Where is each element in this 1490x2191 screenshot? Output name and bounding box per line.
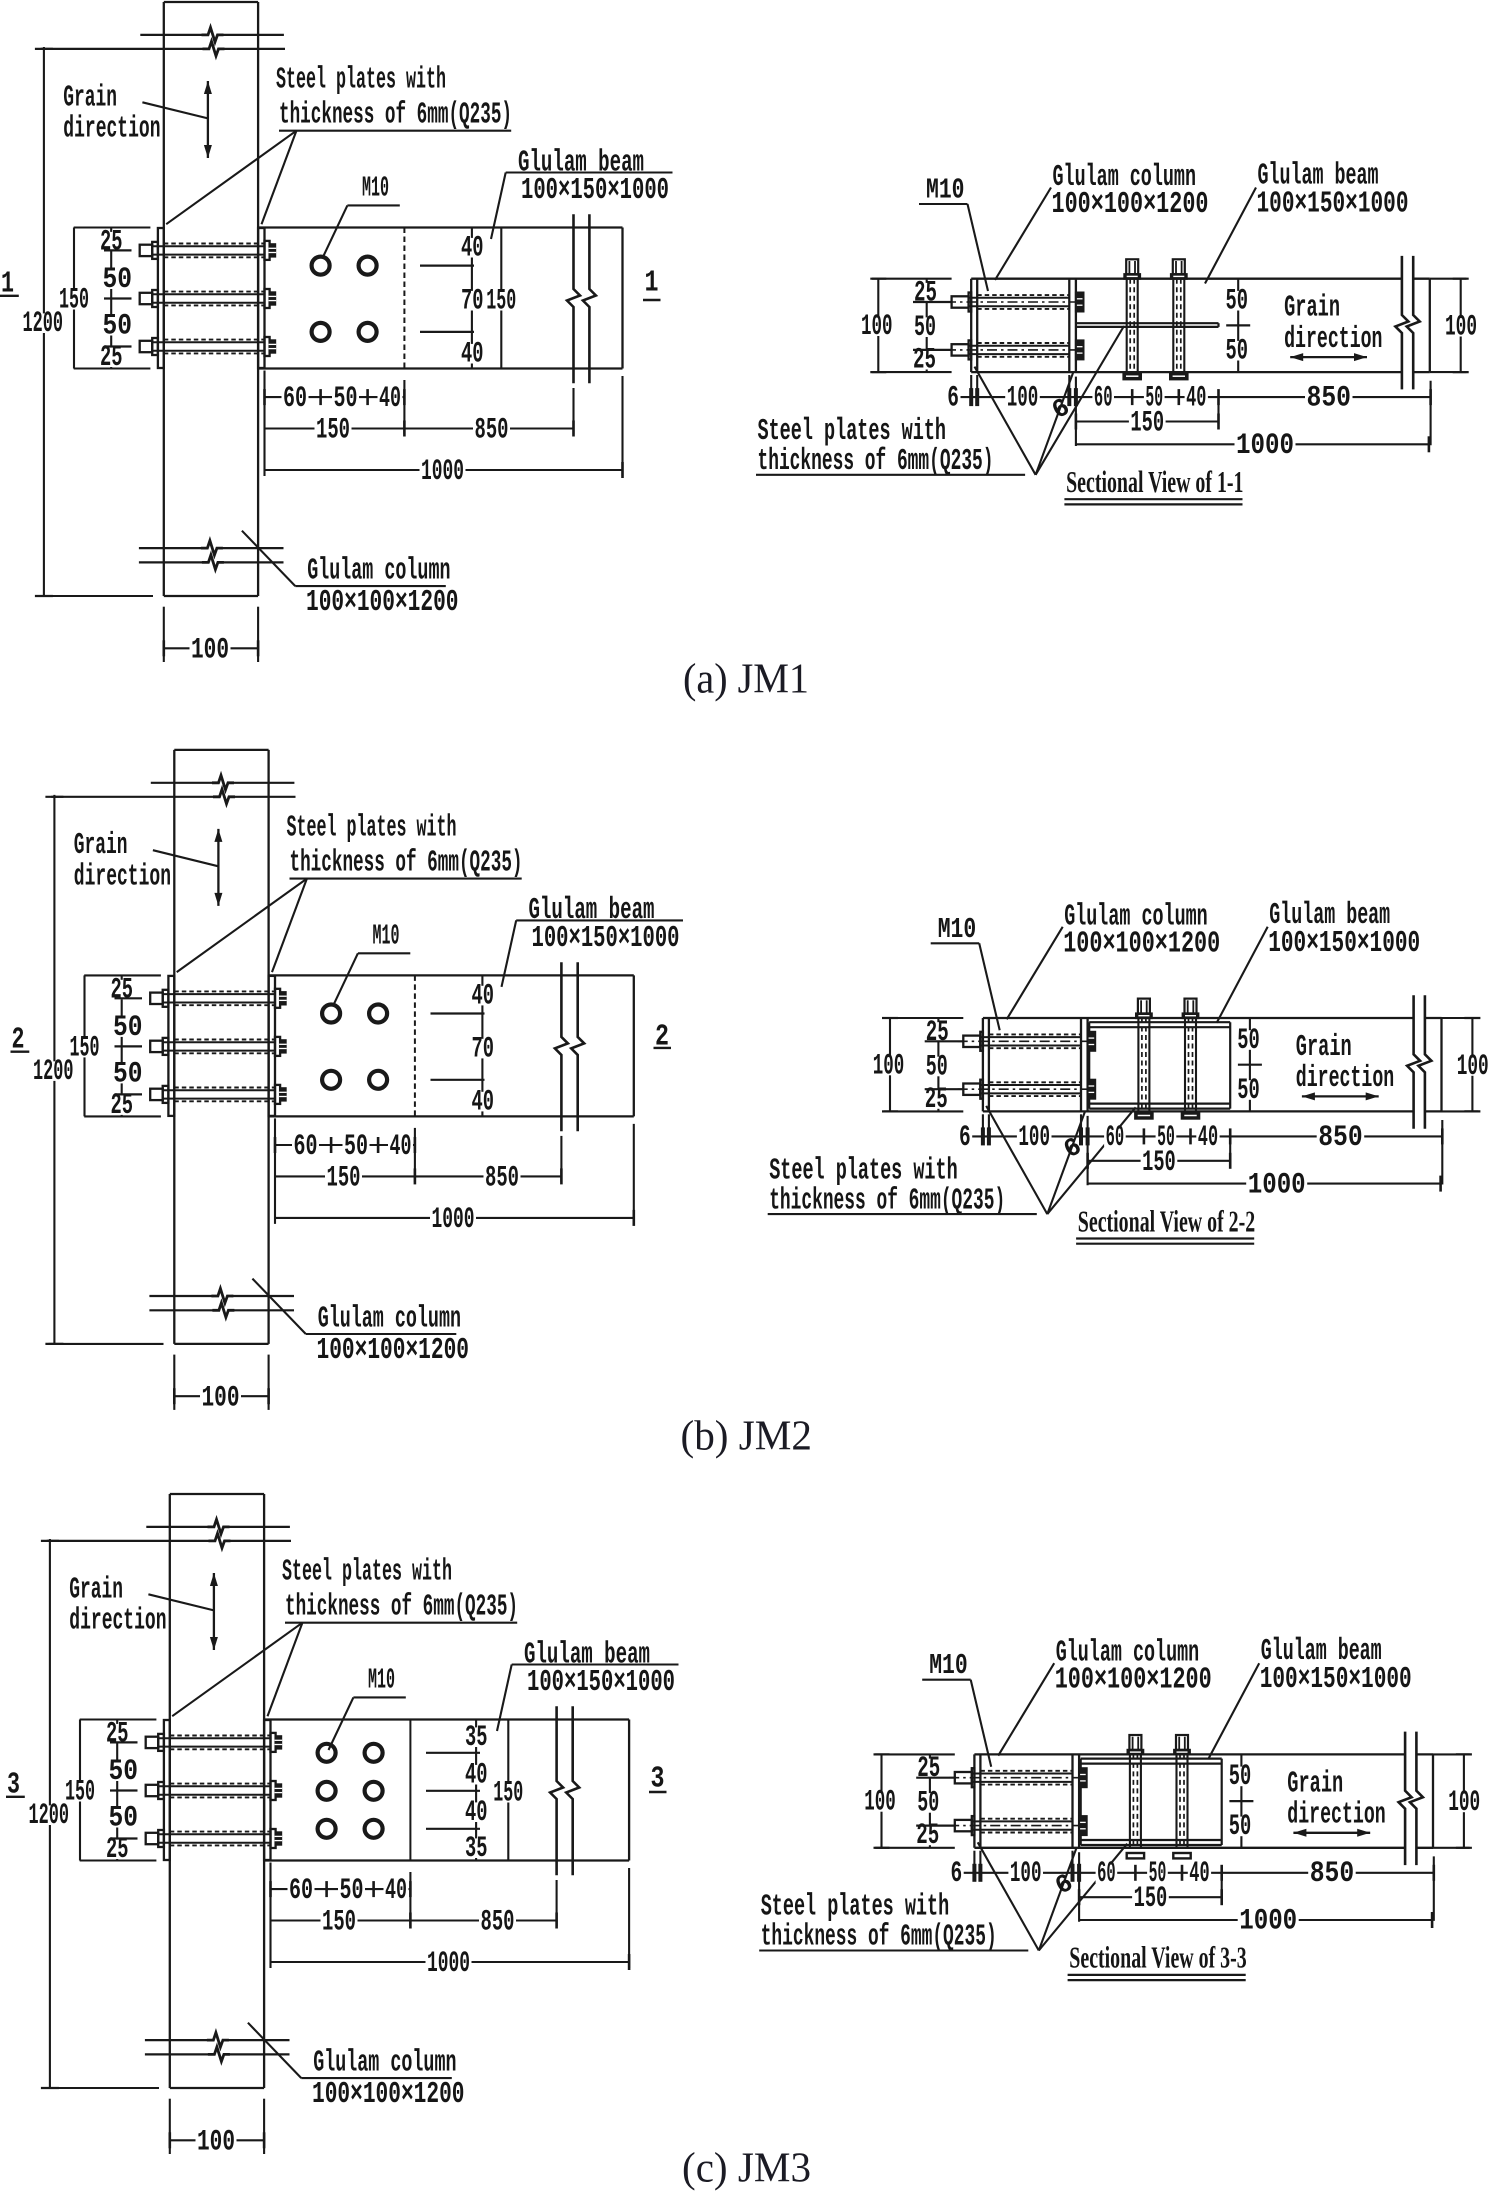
svg-text:100×100×1200: 100×100×1200	[312, 2078, 465, 2112]
svg-text:100: 100	[197, 2126, 235, 2159]
dimension 50/50 JM1	[1237, 279, 1239, 372]
dimension 1000 JM3	[271, 1961, 630, 1963]
dimension 1000 JM1 section	[1076, 443, 1429, 445]
svg-text:150: 150	[65, 1776, 95, 1809]
svg-text:70: 70	[472, 1032, 495, 1065]
svg-text:150: 150	[493, 1777, 523, 1810]
section break symbol JM2	[1407, 995, 1420, 1128]
svg-text:25: 25	[926, 1016, 949, 1049]
bolt M10 row2 JM2 elevation	[150, 1041, 163, 1052]
dimension 100 left JM3	[880, 1754, 882, 1847]
bolt hole circles JM2	[322, 1005, 340, 1023]
svg-text:150: 150	[316, 414, 350, 447]
svg-text:100×100×1200: 100×100×1200	[1052, 188, 1209, 222]
svg-text:850: 850	[1318, 1121, 1363, 1154]
dimension 100 column width JM1	[163, 607, 165, 662]
svg-text:150: 150	[1134, 1882, 1168, 1915]
dimension 150/850 JM2	[275, 1175, 561, 1177]
svg-text:1000: 1000	[1248, 1168, 1306, 1201]
column bottom break symbol JM3	[145, 2039, 209, 2041]
svg-text:25: 25	[913, 344, 936, 377]
svg-text:M10: M10	[368, 1665, 395, 1697]
dimension 150 plate height JM2	[83, 975, 85, 1116]
steel plate end line in beam JM1	[403, 228, 405, 369]
dimension 1000 JM2 section	[1088, 1183, 1441, 1185]
svg-text:50: 50	[109, 1755, 139, 1788]
grain direction arrow JM3	[213, 1573, 215, 1650]
beam break symbol JM2	[555, 962, 568, 1131]
svg-text:direction: direction	[1287, 1799, 1385, 1833]
bolt M10 row1 JM2 elevation	[150, 993, 163, 1004]
extension lines JM3 section	[1078, 1852, 1080, 1921]
bolt M10 row3 JM2 elevation	[150, 1089, 163, 1100]
svg-text:25: 25	[925, 1083, 948, 1116]
svg-text:6: 6	[951, 1857, 963, 1890]
svg-text:40: 40	[472, 1085, 495, 1118]
beam break symbol JM1	[567, 214, 580, 383]
svg-text:100: 100	[191, 634, 229, 667]
bolt row reference lines JM3	[426, 1752, 480, 1754]
svg-text:50: 50	[1229, 1810, 1252, 1843]
bolt M10 row1 JM1 elevation	[140, 245, 153, 256]
svg-text:50: 50	[113, 1057, 143, 1090]
horizontal bolt 1 JM1 section	[952, 296, 969, 307]
column top break symbol JM3	[146, 1526, 209, 1528]
svg-text:100×150×1000: 100×150×1000	[532, 922, 680, 956]
dimension 50/50 JM3	[1240, 1754, 1242, 1847]
column face JM2	[1080, 1018, 1082, 1111]
svg-text:40: 40	[1198, 1121, 1218, 1154]
svg-text:Grain: Grain	[1287, 1767, 1343, 1801]
steel side plate left of column JM1	[158, 228, 164, 368]
column face JM1	[1068, 279, 1070, 372]
svg-text:100: 100	[1448, 1786, 1480, 1819]
svg-text:40: 40	[1186, 382, 1206, 415]
svg-text:50: 50	[1237, 1074, 1260, 1107]
bolt row reference lines JM2	[431, 1012, 485, 1014]
svg-text:25: 25	[917, 1752, 940, 1785]
column top break symbol JM2	[151, 782, 214, 784]
bolt M10 row3 JM3 elevation	[146, 1833, 159, 1844]
interface plate (6mm) JM2	[1086, 1018, 1088, 1111]
svg-text:850: 850	[481, 1906, 515, 1939]
beam/column section band JM2	[983, 1017, 1414, 1019]
svg-text:150: 150	[59, 284, 89, 317]
svg-text:850: 850	[1307, 382, 1352, 415]
svg-text:100×150×1000: 100×150×1000	[1260, 1663, 1412, 1697]
dimension chain 25/50/50/25 JM3	[116, 1720, 118, 1861]
svg-text:Steel plates with: Steel plates with	[761, 1891, 950, 1925]
svg-text:1200: 1200	[33, 1055, 74, 1088]
dimension 150 JM3 section	[1079, 1896, 1222, 1898]
bottom washer bolt 2 JM3	[1173, 1853, 1190, 1858]
grain direction arrow JM2	[217, 829, 219, 906]
svg-text:40: 40	[461, 338, 484, 371]
svg-text:Sectional View of 2-2: Sectional View of 2-2	[1078, 1203, 1255, 1238]
column top break symbol JM1	[140, 34, 203, 36]
svg-text:Sectional View of 1-1: Sectional View of 1-1	[1066, 464, 1243, 499]
dimension 150 beam height JM1	[500, 228, 502, 369]
svg-text:Grain: Grain	[1296, 1031, 1352, 1065]
svg-text:25: 25	[914, 277, 937, 310]
dimension chain 25/50/50/25 JM2	[121, 975, 123, 1116]
svg-text:1000: 1000	[1239, 1905, 1297, 1938]
svg-text:100×150×1000: 100×150×1000	[1257, 188, 1409, 222]
svg-text:100: 100	[202, 1381, 240, 1414]
svg-text:850: 850	[475, 414, 509, 447]
extension lines JM1 section	[1075, 377, 1077, 446]
dimension 100 column width JM3	[169, 2099, 171, 2154]
svg-text:40: 40	[465, 1759, 488, 1792]
dimension 1000 JM2	[275, 1217, 634, 1219]
dimension 60/50/40 JM1	[265, 396, 405, 398]
bottom dimension chain JM3 section	[949, 1872, 1434, 1874]
svg-text:60: 60	[1106, 1121, 1125, 1154]
svg-text:50: 50	[926, 1050, 948, 1083]
bolt hole circles JM3	[318, 1744, 336, 1762]
svg-text:150: 150	[486, 285, 516, 318]
svg-text:Glulam column: Glulam column	[318, 1302, 461, 1336]
svg-text:70: 70	[461, 285, 484, 318]
svg-text:Sectional View of 3-3: Sectional View of 3-3	[1069, 1940, 1246, 1975]
horizontal bolt 1 JM3 section	[955, 1772, 972, 1783]
glulam column JM3 elevation	[169, 1494, 171, 2088]
beam/column section band JM1	[971, 278, 1402, 280]
svg-text:direction: direction	[63, 113, 160, 147]
steel plate end line in beam JM2	[414, 975, 416, 1116]
glulam column JM1 elevation	[163, 2, 165, 596]
svg-text:40: 40	[461, 232, 484, 265]
svg-text:60: 60	[1094, 382, 1113, 415]
svg-text:100: 100	[1018, 1121, 1050, 1154]
bolt M10 row2 JM1 elevation	[140, 293, 153, 304]
svg-text:150: 150	[70, 1031, 100, 1064]
dimension chain 25/50/25 JM2	[937, 1018, 939, 1111]
vertical bolt 1 JM2 section	[1138, 999, 1150, 1014]
interface plate (6mm) JM1	[1075, 279, 1077, 372]
grain direction arrow JM1 section	[1290, 356, 1367, 358]
horizontal bolt 2 JM1 section	[952, 344, 969, 355]
svg-text:100×100×1200: 100×100×1200	[1055, 1664, 1212, 1698]
outer steel plates JM3	[1081, 1757, 1222, 1759]
glulam column JM2 elevation	[173, 750, 175, 1344]
vertical bolt 2 JM1 section	[1173, 259, 1185, 274]
svg-text:100: 100	[873, 1049, 905, 1082]
svg-text:Steel plates with: Steel plates with	[758, 415, 947, 449]
dimension 100 left JM2	[889, 1018, 891, 1111]
steel plates leader lines JM3	[172, 1623, 302, 1717]
bottom washer bolt 2 JM1	[1170, 373, 1187, 379]
dimension 1200 JM3	[49, 1539, 51, 2088]
column face JM3	[1071, 1754, 1073, 1847]
bottom washer bolt 1 JM1	[1124, 373, 1141, 379]
svg-text:40: 40	[385, 1874, 407, 1907]
svg-text:1200: 1200	[29, 1799, 70, 1832]
dimension extension lines below beam JM1	[263, 371, 265, 477]
glulam beam JM2 elevation	[269, 974, 634, 976]
dimension 100 left JM1	[877, 279, 879, 372]
bolt row reference lines JM1	[420, 265, 474, 267]
svg-text:50: 50	[103, 263, 133, 296]
svg-text:100: 100	[861, 310, 893, 343]
dimension 150 plate height JM3	[79, 1720, 81, 1861]
interface plate (6mm) JM3	[1078, 1754, 1080, 1847]
svg-text:50: 50	[103, 310, 133, 343]
svg-text:50: 50	[109, 1802, 139, 1835]
bolt M10 row1 JM3 elevation	[146, 1737, 159, 1748]
svg-text:1000: 1000	[432, 1203, 475, 1236]
svg-text:60: 60	[283, 382, 307, 415]
column bottom break symbol JM2	[149, 1295, 213, 1297]
dimension 100 right JM1	[1460, 279, 1462, 372]
dimension chain 25/50/25 JM1	[926, 279, 928, 372]
svg-text:M10: M10	[929, 1650, 968, 1682]
svg-text:direction: direction	[1296, 1062, 1394, 1096]
steel plates leader lines JM2 section	[986, 1106, 1047, 1214]
svg-text:Grain: Grain	[69, 1573, 123, 1607]
svg-text:6: 6	[947, 382, 959, 415]
svg-text:Steel plates with: Steel plates with	[287, 812, 457, 846]
svg-text:50: 50	[334, 382, 358, 415]
svg-text:150: 150	[327, 1161, 361, 1194]
dimension 150/850 JM1	[265, 427, 574, 429]
bolt M10 row3 JM1 elevation	[140, 341, 153, 352]
svg-text:50: 50	[1226, 285, 1249, 318]
vertical bolt 1 JM3 section	[1129, 1735, 1141, 1750]
svg-text:thickness of 6mm(Q235): thickness of 6mm(Q235)	[285, 1591, 518, 1625]
svg-text:Grain: Grain	[1284, 292, 1340, 326]
slotted-in steel plate JM1	[1076, 322, 1219, 324]
dimension extension lines below beam JM2	[274, 1118, 276, 1224]
svg-text:150: 150	[322, 1906, 356, 1939]
svg-text:40: 40	[390, 1130, 412, 1163]
steel side plate right of column JM1	[258, 228, 264, 368]
svg-text:60: 60	[289, 1874, 313, 1907]
svg-text:50: 50	[344, 1130, 368, 1163]
svg-text:50: 50	[917, 1787, 939, 1820]
bottom washer bolt 2 JM2	[1182, 1112, 1199, 1118]
steel plate end line in beam JM3	[409, 1720, 411, 1861]
column bottom break symbol JM1	[139, 547, 203, 549]
svg-text:1000: 1000	[1236, 429, 1294, 462]
svg-text:100×100×1200: 100×100×1200	[306, 586, 459, 620]
svg-text:40: 40	[465, 1796, 488, 1829]
dimension 150 plate height JM1	[73, 228, 75, 369]
svg-text:M10: M10	[373, 920, 400, 952]
svg-text:100×100×1200: 100×100×1200	[317, 1334, 470, 1368]
svg-text:40: 40	[379, 382, 401, 415]
dimension 1200 JM2	[53, 795, 55, 1344]
svg-text:Steel plates with: Steel plates with	[276, 64, 446, 98]
svg-text:25: 25	[106, 1718, 129, 1751]
svg-text:60: 60	[1097, 1857, 1116, 1890]
grain direction arrow JM3 section	[1293, 1832, 1370, 1834]
svg-text:100: 100	[1457, 1050, 1489, 1083]
vertical bolt 2 JM2 section	[1185, 999, 1197, 1014]
dimension 1200 JM1	[43, 47, 45, 596]
steel plates leader lines JM2	[177, 879, 307, 973]
steel plates leader lines JM1 section	[975, 367, 1036, 475]
svg-text:150: 150	[1142, 1146, 1176, 1179]
bottom washer bolt 1 JM2	[1135, 1112, 1152, 1118]
dimension 35/40/40/35 JM3	[475, 1720, 477, 1861]
svg-text:thickness of 6mm(Q235): thickness of 6mm(Q235)	[290, 846, 523, 880]
grain direction arrow JM2 section	[1302, 1095, 1379, 1097]
dimension 40/70/40 JM1	[471, 228, 473, 369]
extension lines below plates JM3 section	[973, 1851, 975, 1878]
vertical bolt 1 JM1 section	[1126, 259, 1138, 274]
svg-text:25: 25	[111, 973, 134, 1006]
beam break symbol JM3	[550, 1706, 563, 1875]
svg-text:Steel plates with: Steel plates with	[769, 1154, 958, 1188]
dimension chain 25/50/50/25 JM1	[110, 228, 112, 369]
svg-text:M10: M10	[362, 173, 389, 205]
steel side plate right of column JM3	[264, 1720, 270, 1860]
svg-text:100: 100	[1010, 1857, 1042, 1890]
outer steel plates JM2	[1089, 1021, 1230, 1023]
svg-text:direction: direction	[69, 1605, 166, 1639]
extension lines below plates JM1 section	[970, 375, 972, 402]
svg-text:50: 50	[1226, 335, 1249, 368]
column end plate (6mm) JM2	[982, 1018, 984, 1111]
grain direction arrow JM1	[207, 81, 209, 158]
svg-text:1000: 1000	[427, 1947, 470, 1980]
dimension 100 right JM2	[1471, 1018, 1473, 1111]
dimension 60/50/40 JM3	[271, 1888, 411, 1890]
bottom dimension chain JM1 section	[946, 396, 1431, 398]
beam/column section band JM3	[974, 1753, 1405, 1755]
svg-text:2: 2	[655, 1020, 669, 1054]
svg-text:40: 40	[472, 979, 495, 1012]
svg-text:50: 50	[340, 1874, 364, 1907]
glulam beam JM3 elevation	[264, 1718, 629, 1720]
svg-text:35: 35	[465, 1721, 488, 1754]
steel side plate left of column JM2	[168, 976, 174, 1116]
svg-text:M10: M10	[926, 175, 965, 207]
svg-text:Steel plates with: Steel plates with	[282, 1556, 452, 1590]
horizontal bolt 2 JM3 section	[955, 1820, 972, 1831]
extension lines below plates JM2 section	[982, 1114, 984, 1141]
svg-text:100×100×1200: 100×100×1200	[1063, 927, 1220, 961]
svg-text:25: 25	[916, 1819, 939, 1852]
svg-text:(a) JM1: (a) JM1	[683, 657, 809, 703]
svg-text:100×150×1000: 100×150×1000	[521, 174, 669, 208]
svg-text:150: 150	[1130, 407, 1164, 440]
svg-text:50: 50	[1237, 1024, 1260, 1057]
column end plate (6mm) JM1	[970, 279, 972, 372]
svg-text:100×150×1000: 100×150×1000	[1268, 927, 1420, 961]
svg-text:Grain: Grain	[63, 81, 117, 115]
dimension 1000 JM1	[265, 469, 623, 471]
svg-text:100: 100	[864, 1786, 896, 1819]
bottom dimension chain JM2 section	[958, 1135, 1443, 1137]
svg-text:50: 50	[1229, 1760, 1252, 1793]
svg-text:1200: 1200	[23, 307, 64, 340]
bolt hole circles JM1	[312, 257, 330, 275]
extension lines JM2 section	[1087, 1116, 1089, 1185]
svg-text:1: 1	[645, 267, 659, 301]
steel plates leader lines JM3 section	[978, 1842, 1039, 1950]
dimension chain 25/50/25 JM3	[929, 1754, 931, 1847]
svg-text:Glulam column: Glulam column	[313, 2047, 456, 2081]
svg-text:direction: direction	[74, 860, 171, 894]
dimension 50/50 JM2	[1249, 1018, 1251, 1111]
dimension 1000 JM3 section	[1079, 1919, 1432, 1921]
svg-text:Grain: Grain	[74, 829, 128, 863]
vertical bolt 2 JM3 section	[1176, 1735, 1188, 1750]
svg-text:Glulam column: Glulam column	[307, 555, 450, 589]
svg-text:1000: 1000	[421, 455, 464, 488]
svg-text:50: 50	[113, 1011, 143, 1044]
dimension 40/70/40 JM2	[481, 975, 483, 1116]
steel side plate left of column JM3	[164, 1720, 170, 1860]
svg-text:850: 850	[1310, 1857, 1355, 1890]
section break symbol JM3	[1399, 1732, 1412, 1866]
svg-text:thickness of 6mm(Q235): thickness of 6mm(Q235)	[279, 99, 512, 133]
dimension 150/850 JM3	[271, 1919, 557, 1921]
dimension 60/50/40 JM2	[275, 1144, 415, 1146]
bolt M10 row2 JM3 elevation	[146, 1785, 159, 1796]
svg-text:(b) JM2: (b) JM2	[681, 1414, 813, 1460]
dimension extension lines below beam JM3	[269, 1863, 271, 1969]
dimension 100 column width JM2	[173, 1355, 175, 1410]
svg-text:M10: M10	[938, 914, 977, 946]
dimension 150 beam height JM3	[507, 1720, 509, 1861]
column end plate (6mm) JM3	[973, 1754, 975, 1847]
svg-text:35: 35	[465, 1832, 488, 1865]
svg-text:60: 60	[294, 1130, 318, 1163]
steel side plate right of column JM2	[269, 976, 275, 1116]
glulam beam JM1 elevation	[258, 226, 622, 228]
svg-text:25: 25	[100, 226, 123, 259]
svg-text:direction: direction	[1284, 323, 1382, 357]
svg-text:50: 50	[914, 311, 936, 344]
steel plates leader lines JM1	[166, 131, 296, 225]
dimension 100 right JM3	[1463, 1754, 1465, 1847]
svg-text:100: 100	[1445, 311, 1477, 344]
svg-text:6: 6	[959, 1121, 971, 1154]
svg-text:(c) JM3: (c) JM3	[682, 2146, 811, 2191]
horizontal bolt 1 JM2 section	[963, 1036, 980, 1047]
dimension 150 JM2 section	[1088, 1160, 1231, 1162]
dimension 150 JM1 section	[1076, 420, 1219, 422]
svg-text:40: 40	[1189, 1857, 1209, 1890]
section break symbol JM1	[1395, 256, 1408, 390]
bottom washer bolt 1 JM3	[1127, 1853, 1144, 1858]
svg-text:100: 100	[1007, 382, 1039, 415]
svg-text:100×150×1000: 100×150×1000	[527, 1666, 675, 1700]
horizontal bolt 2 JM2 section	[963, 1084, 980, 1095]
svg-text:850: 850	[485, 1161, 519, 1194]
